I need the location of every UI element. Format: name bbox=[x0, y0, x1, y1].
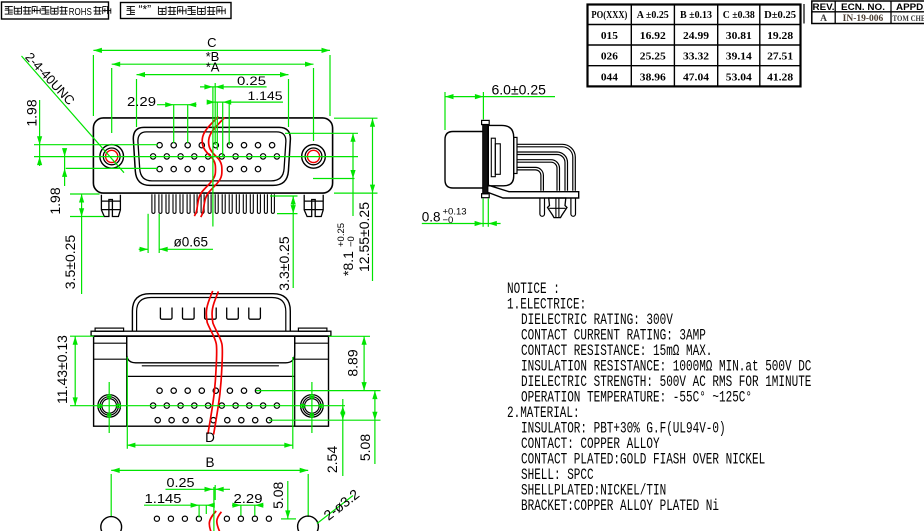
svg-text:044: 044 bbox=[601, 72, 619, 83]
side view: bent pins bbox=[517, 144, 575, 191]
dimension B bbox=[110, 474, 112, 517]
side view: front barrel bbox=[445, 132, 484, 189]
svg-text:39.14: 39.14 bbox=[726, 52, 753, 63]
rear view: mounting holes bbox=[98, 395, 121, 418]
svg-text:11.43±0.13: 11.43±0.13 bbox=[54, 335, 70, 404]
svg-text:D±0.25: D±0.25 bbox=[764, 10, 796, 21]
dimension *B bbox=[112, 63, 314, 65]
svg-text:19.28: 19.28 bbox=[767, 31, 793, 42]
bottom view: right mounting hole bbox=[298, 516, 319, 531]
rear view: pin holes row 3 bbox=[155, 418, 160, 423]
svg-text:5.08: 5.08 bbox=[357, 434, 373, 461]
svg-text:5.08: 5.08 bbox=[270, 481, 286, 508]
rear view: pin holes row 2 bbox=[150, 403, 155, 408]
rear view: red break squiggle bbox=[206, 291, 222, 435]
svg-text:PO(XXX): PO(XXX) bbox=[591, 10, 627, 21]
dimension 1.145 bbox=[208, 101, 283, 103]
svg-text:3.3±0.25: 3.3±0.25 bbox=[276, 236, 292, 291]
bottom view centerline bbox=[213, 487, 215, 531]
dimension 0.25 bbox=[200, 86, 267, 88]
front view: D-shroud outer bbox=[133, 127, 290, 185]
revision strip REV ECN NO APPD bbox=[800, 4, 802, 24]
dimension 12.55±0.25 bbox=[372, 118, 374, 281]
svg-text:“*”: “*” bbox=[139, 3, 152, 17]
dimension D bbox=[126, 357, 128, 449]
rear view: flange bar bbox=[91, 331, 331, 336]
svg-text:015: 015 bbox=[601, 31, 618, 42]
svg-text:*8.1: *8.1 bbox=[340, 251, 356, 276]
side view: bracket bbox=[488, 185, 578, 198]
svg-text:6.0±0.25: 6.0±0.25 bbox=[492, 82, 547, 98]
svg-text:53.04: 53.04 bbox=[726, 72, 753, 83]
svg-text:1.145: 1.145 bbox=[248, 91, 283, 103]
dimension 3.3±0.25 bbox=[292, 196, 294, 288]
dimension 1.98 upper bbox=[39, 100, 41, 166]
svg-text:ø0.65: ø0.65 bbox=[174, 235, 209, 250]
centerline front view bbox=[212, 87, 214, 227]
svg-text:ECN. NO.: ECN. NO. bbox=[841, 2, 885, 13]
dimension 5.08 bottom bbox=[287, 481, 289, 519]
bottom view: pin pads bbox=[154, 516, 159, 521]
svg-text:APPD.: APPD. bbox=[896, 2, 924, 13]
svg-text:026: 026 bbox=[601, 52, 618, 63]
side view: through pins below bracket bbox=[540, 198, 545, 216]
dimension 2.29 bbox=[157, 104, 197, 106]
front view: pin holes row 2 bbox=[150, 154, 155, 159]
front view: right mounting hole bbox=[302, 145, 326, 169]
svg-text:24.99: 24.99 bbox=[683, 31, 709, 42]
svg-text:47.04: 47.04 bbox=[683, 72, 710, 83]
front view: pin holes row 3 bbox=[157, 166, 162, 171]
svg-text:D: D bbox=[205, 430, 215, 445]
svg-text:−0: −0 bbox=[443, 215, 454, 226]
dimension 5.08 rear bbox=[269, 419, 381, 421]
svg-text:12.55±0.25: 12.55±0.25 bbox=[356, 202, 372, 272]
svg-text:27.51: 27.51 bbox=[767, 52, 793, 63]
svg-text:8.89: 8.89 bbox=[345, 349, 361, 376]
svg-text:2.54: 2.54 bbox=[324, 446, 340, 473]
svg-text:TOM CHEN: TOM CHEN bbox=[893, 14, 924, 23]
dimension 3.5±0.25 bbox=[81, 194, 83, 217]
size table PO(XXX) A B C D bbox=[588, 5, 801, 87]
svg-text:B: B bbox=[205, 455, 214, 470]
svg-text:2.29: 2.29 bbox=[127, 95, 156, 109]
svg-text:0.25: 0.25 bbox=[167, 476, 195, 490]
dimension 8.89 bbox=[329, 335, 371, 337]
svg-text:BRACKET:COPPER ALLOY PLATED Ni: BRACKET:COPPER ALLOY PLATED Ni bbox=[521, 497, 719, 515]
dimension 0.25 bottom bbox=[166, 488, 231, 490]
bottom view: red break squiggle bbox=[209, 511, 216, 531]
svg-text:0.25: 0.25 bbox=[237, 76, 266, 88]
svg-text:41.28: 41.28 bbox=[767, 72, 793, 83]
svg-text:B ±0.13: B ±0.13 bbox=[680, 10, 712, 21]
side view: flange plate bbox=[483, 124, 488, 193]
dimension 6.0±0.25 bbox=[445, 96, 555, 98]
rear view: top dome shell bbox=[132, 294, 290, 332]
svg-text:3.5±0.25: 3.5±0.25 bbox=[62, 235, 78, 290]
dimension 2.29 bottom bbox=[232, 504, 264, 506]
svg-text:33.32: 33.32 bbox=[683, 52, 709, 63]
dimension *8.1 +0.25/-0 bbox=[352, 133, 354, 216]
svg-text:C: C bbox=[207, 35, 216, 50]
svg-text:A: A bbox=[820, 14, 827, 24]
svg-text:A ±0.25: A ±0.25 bbox=[637, 10, 669, 21]
rear view: body block bbox=[94, 336, 329, 426]
svg-text:C ±0.38: C ±0.38 bbox=[723, 10, 755, 21]
long center line through rear holes bbox=[70, 405, 345, 407]
right extension lines bbox=[285, 132, 358, 134]
rear view: insulator tray bbox=[127, 336, 295, 363]
svg-text:REV.: REV. bbox=[813, 2, 835, 13]
svg-text:30.81: 30.81 bbox=[726, 31, 752, 42]
svg-text:0.8: 0.8 bbox=[422, 210, 441, 225]
side view: board lock bbox=[548, 198, 568, 218]
svg-text:2.29: 2.29 bbox=[234, 492, 263, 506]
svg-text:*A: *A bbox=[206, 60, 220, 75]
note box 2: key inspection dimension note bbox=[121, 3, 232, 19]
side view: insulator body bbox=[488, 125, 513, 185]
dimension 1.145 bottom bbox=[144, 504, 210, 506]
dimension ø0.65 bbox=[147, 214, 149, 253]
svg-text:38.96: 38.96 bbox=[640, 72, 666, 83]
dimension 2.54 bbox=[342, 399, 344, 476]
front view: red break squiggle bbox=[194, 117, 224, 218]
dimension 1.98 lower bbox=[64, 149, 66, 187]
svg-text:1.98: 1.98 bbox=[47, 187, 63, 214]
dimension *A bbox=[137, 74, 289, 76]
front view: left board bracket bbox=[101, 195, 120, 217]
svg-text:25.25: 25.25 bbox=[640, 52, 666, 63]
svg-text:ROHS: ROHS bbox=[69, 6, 92, 18]
rear view: pin holes row 1 bbox=[157, 388, 162, 393]
bottom view: left mounting hole bbox=[101, 517, 122, 531]
note box 1: ROHS material note bbox=[2, 2, 109, 19]
rear view: flange tabs bbox=[95, 328, 124, 331]
front view: left mounting hole bbox=[100, 145, 124, 169]
svg-text:1.98: 1.98 bbox=[24, 99, 40, 126]
left extension lines bbox=[34, 144, 158, 146]
label 2-ø3.2 with leader bbox=[317, 496, 353, 524]
dimension 11.43±0.13 bbox=[70, 335, 94, 337]
dimension C bbox=[93, 49, 330, 51]
front view: D-shroud inner bbox=[138, 132, 286, 181]
front view: connector body bbox=[93, 118, 332, 193]
rear view: slots in dome bbox=[160, 308, 172, 320]
svg-text:16.92: 16.92 bbox=[640, 31, 666, 42]
dimension 0.8 +0.13/-0 bbox=[482, 199, 484, 227]
front view: pin holes row 1 bbox=[157, 143, 162, 148]
front view: pin tails bbox=[152, 194, 155, 213]
svg-text:1.145: 1.145 bbox=[145, 492, 182, 506]
svg-text:IN-19-006: IN-19-006 bbox=[843, 14, 884, 24]
